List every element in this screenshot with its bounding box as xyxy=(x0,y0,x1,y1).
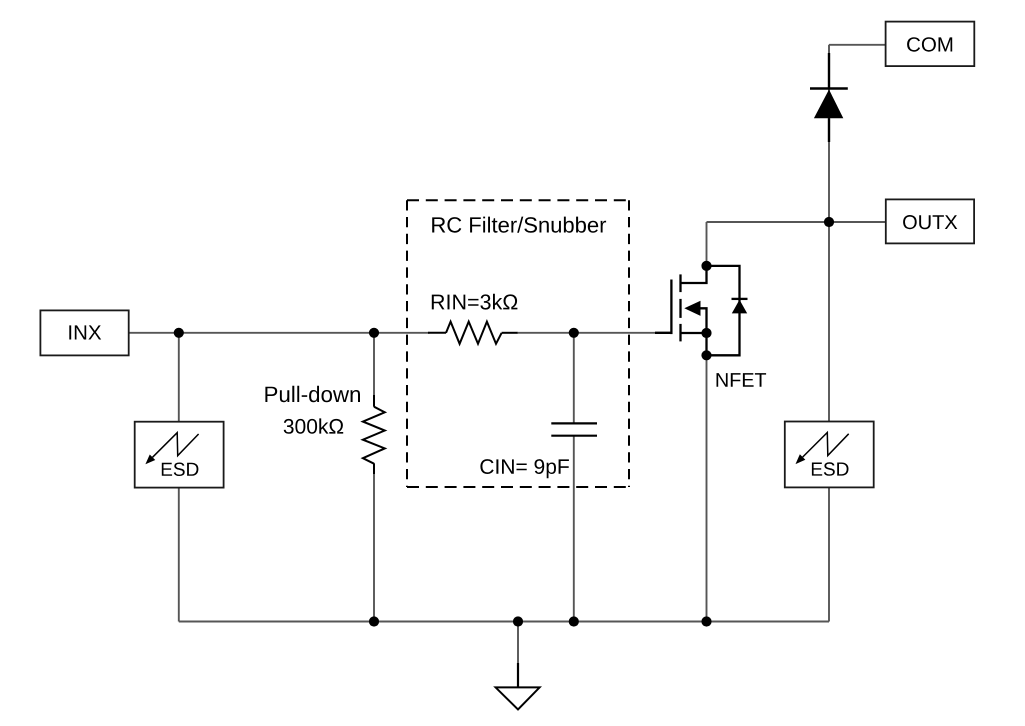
diode D1 to COM xyxy=(810,53,848,142)
resistor pull-down 300k xyxy=(363,395,385,474)
node OUTX xyxy=(824,217,834,227)
node C (RIN/CIN junction) xyxy=(569,328,579,338)
ESD protection cell right xyxy=(785,422,874,488)
wire node A down to ESD1 xyxy=(178,333,180,422)
node rail pull-down xyxy=(369,616,379,626)
node rail CIN xyxy=(569,616,579,626)
node A (INX / ESD1) xyxy=(174,328,184,338)
wire NFET drain up xyxy=(706,222,708,266)
terminal OUTX xyxy=(886,199,974,243)
ground xyxy=(496,663,540,710)
wire pull-down top lead xyxy=(373,333,375,407)
node source/body xyxy=(701,328,711,338)
wire drain node to OUTX xyxy=(707,221,886,223)
wire NFET source down to rail xyxy=(706,355,708,621)
wire RIN to NFET gate xyxy=(517,332,671,334)
label Pull-down xyxy=(265,386,360,402)
node rail ground xyxy=(513,616,523,626)
wire ground rail xyxy=(179,621,829,623)
body diode of NFET xyxy=(707,266,748,355)
label CIN= 9pF xyxy=(480,459,569,478)
node drain xyxy=(701,261,711,271)
terminal INX xyxy=(40,310,128,355)
resistor RIN xyxy=(428,322,518,344)
capacitor CIN xyxy=(551,423,597,435)
wire CIN top lead xyxy=(573,333,575,424)
label RC Filter/Snubber xyxy=(432,217,606,233)
terminal COM xyxy=(886,22,975,67)
label NFET xyxy=(717,373,767,387)
wire CIN bottom lead xyxy=(573,436,575,622)
wire pull-down bottom lead xyxy=(373,463,375,622)
transistor NFET xyxy=(655,266,707,355)
wire diode to COM xyxy=(829,44,886,46)
node B (pull-down tap) xyxy=(369,328,379,338)
wire ESD1 to ground rail xyxy=(178,488,180,622)
wire ground stem xyxy=(517,622,519,667)
wire OUTX node up to diode xyxy=(828,45,830,222)
label 300kOhm xyxy=(284,418,344,433)
wire INX to RIN xyxy=(129,332,430,334)
node rail NFET source xyxy=(701,616,711,626)
ESD protection cell left xyxy=(135,422,224,488)
wire ESD2 to ground rail xyxy=(828,487,830,622)
label RIN=3kOhm xyxy=(432,294,518,310)
wire OUTX node down to ESD2 xyxy=(828,222,830,422)
RC Filter/Snubber dashed boundary xyxy=(407,200,629,487)
node source/diode xyxy=(701,350,711,360)
